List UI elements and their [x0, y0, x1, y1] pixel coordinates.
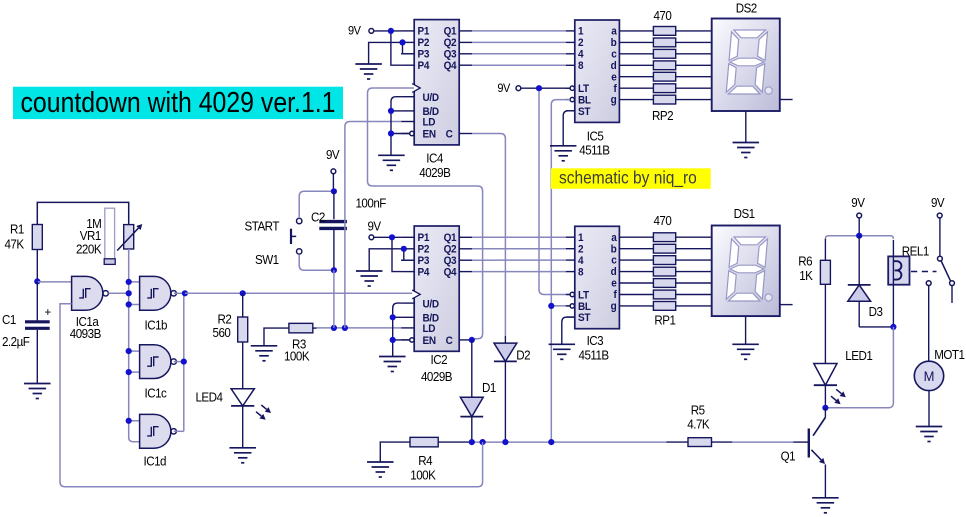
- node bus IC1b.in2: [126, 301, 132, 307]
- svg-text:a: a: [611, 26, 617, 37]
- svg-text:9V: 9V: [497, 83, 510, 95]
- capacitor C1: [2, 281, 51, 383]
- node IC2 EN: [390, 337, 396, 343]
- svg-text:C: C: [446, 336, 454, 347]
- decoder IC3 (4511B): [566, 226, 654, 362]
- svg-text:220K: 220K: [76, 242, 102, 256]
- wire LD bus: [317, 327, 402, 329]
- switch SW1 (START pushbutton): [245, 218, 302, 267]
- svg-text:4093B: 4093B: [70, 327, 101, 341]
- relay coil REL1: [888, 240, 929, 327]
- svg-text:P4: P4: [418, 267, 430, 278]
- wire IC4 P2/P3 to ground: [369, 42, 415, 64]
- diode D3 (flyback): [848, 236, 894, 327]
- svg-text:9V: 9V: [326, 148, 340, 162]
- wire bottom bus (D1/D2/R4/BL to R5): [438, 441, 793, 443]
- svg-text:e: e: [611, 278, 617, 289]
- svg-text:+: +: [45, 305, 52, 319]
- decoder IC5 (4511B): [566, 20, 654, 157]
- node IC4 B/D: [388, 108, 394, 114]
- resistor R1: [5, 222, 43, 281]
- svg-text:d: d: [611, 267, 617, 278]
- svg-text:VR1: VR1: [80, 228, 102, 242]
- wire 9V to IC2 P1/P4: [374, 237, 402, 271]
- svg-text:LED1: LED1: [845, 349, 873, 363]
- relay contact (NO switch): [926, 218, 954, 361]
- wire top rail R1-VR1: [37, 202, 128, 224]
- wire relay node to LED1/Q1 node: [825, 327, 893, 408]
- terminal 9V (IC2): [368, 219, 382, 240]
- wire IC5 ST to ground: [563, 111, 575, 146]
- svg-text:100K: 100K: [284, 349, 310, 363]
- wire DS1 common to ground: [745, 316, 747, 344]
- ground (MOT1): [916, 427, 943, 442]
- svg-text:1: 1: [578, 26, 584, 37]
- terminal 9V (LT line): [497, 83, 520, 95]
- wire BL line IC5-IC3-bus: [551, 100, 570, 443]
- NAND gate IC1a: [70, 276, 109, 341]
- title banner (cyan): [13, 87, 343, 120]
- svg-text:LD: LD: [423, 117, 437, 128]
- node IC2 9V: [389, 234, 395, 240]
- ground (IC4 U/D,B/D,EN): [378, 155, 405, 170]
- node bus IC1b.in1: [126, 279, 132, 285]
- svg-text:2: 2: [578, 38, 584, 49]
- node LED1/Q1 collector: [822, 405, 828, 411]
- NAND gate IC1b: [140, 276, 177, 332]
- node rail 9V: [856, 233, 862, 239]
- node bus/BL: [548, 439, 554, 445]
- ground (Q1): [812, 498, 839, 513]
- svg-text:Q1: Q1: [444, 26, 457, 37]
- svg-text:1K: 1K: [799, 269, 813, 283]
- ground (IC4 P2/P3): [355, 64, 382, 79]
- svg-text:R5: R5: [691, 403, 706, 417]
- ground (R3): [251, 346, 278, 361]
- svg-text:P2: P2: [418, 38, 430, 49]
- wire gate input bus (vertical): [129, 282, 140, 442]
- node IC1c output: [181, 359, 187, 365]
- svg-text:ST: ST: [578, 107, 591, 118]
- svg-text:g: g: [611, 301, 617, 312]
- svg-text:d: d: [611, 61, 617, 72]
- svg-text:DS1: DS1: [734, 207, 756, 221]
- svg-text:REL1: REL1: [902, 244, 930, 258]
- NAND gate IC1c: [140, 345, 177, 401]
- svg-text:4029B: 4029B: [421, 370, 452, 384]
- node bus IC1d.in1: [126, 418, 132, 424]
- counter IC4 (4029B): [401, 20, 472, 181]
- terminal 9V (IC4): [348, 25, 374, 37]
- svg-text:M: M: [924, 368, 935, 384]
- svg-text:Q2: Q2: [444, 244, 457, 255]
- diode D2: [494, 336, 531, 442]
- node C2 bottom: [331, 267, 337, 273]
- wire DS2 common to ground: [745, 111, 747, 143]
- node oscillator/R2: [240, 290, 246, 296]
- wire 9V rail: [825, 236, 893, 239]
- resistor R2: [213, 293, 248, 342]
- svg-text:4.7K: 4.7K: [687, 417, 709, 431]
- wire IC4.C to D2: [472, 134, 505, 337]
- LED LED1: [814, 284, 873, 408]
- wire IC4 LD line: [345, 122, 401, 328]
- svg-text:4: 4: [578, 49, 584, 60]
- ground (IC3 ST): [549, 344, 576, 359]
- svg-text:P1: P1: [418, 233, 430, 244]
- svg-text:START: START: [245, 219, 281, 233]
- node LD/C2: [331, 325, 337, 331]
- wire IC1a output to bus: [108, 292, 128, 294]
- potentiometer VR1: [76, 208, 142, 264]
- node LD/IC4-LD: [342, 325, 348, 331]
- svg-text:DS2: DS2: [736, 1, 758, 15]
- node REL1/D3: [890, 324, 896, 330]
- svg-text:g: g: [611, 95, 617, 106]
- ground (R4): [367, 462, 394, 477]
- svg-text:C1: C1: [2, 313, 17, 327]
- wire IC3 ST to ground: [562, 317, 575, 344]
- svg-text:9V: 9V: [368, 219, 382, 233]
- svg-text:R6: R6: [798, 254, 813, 268]
- node IC4 EN: [388, 130, 394, 136]
- svg-text:Q3: Q3: [444, 256, 457, 267]
- svg-text:ST: ST: [578, 313, 591, 324]
- svg-text:D3: D3: [869, 305, 884, 319]
- ground (DS1): [732, 344, 759, 359]
- wire R1 node to IC1a input: [37, 281, 71, 283]
- ground (IC2 U/D,B/D,EN): [379, 357, 406, 372]
- ground (C1): [24, 384, 51, 399]
- svg-text:47K: 47K: [5, 237, 25, 251]
- svg-text:IC2: IC2: [431, 353, 448, 367]
- node IC2 carry C: [469, 337, 475, 343]
- svg-text:4029B: 4029B: [419, 166, 450, 180]
- wire 9V to LT pins: [521, 88, 570, 294]
- resistor R5: [666, 403, 732, 446]
- svg-text:8: 8: [578, 267, 584, 278]
- svg-text:BL: BL: [578, 302, 592, 313]
- resistor R6: [798, 239, 830, 285]
- node bus IC1c.in1: [126, 348, 132, 354]
- wire SW1 bottom to C2 bottom node: [299, 254, 334, 270]
- wire carry IC2.C to IC4 clock: [368, 88, 483, 339]
- mechanical link (dashed): [911, 271, 937, 273]
- svg-text:IC1c: IC1c: [145, 386, 167, 400]
- svg-text:9V: 9V: [931, 196, 945, 210]
- wire IC2.C down to D1: [471, 340, 473, 397]
- node IC3 BL: [548, 303, 554, 309]
- svg-text:IC1b: IC1b: [145, 318, 168, 332]
- svg-text:c: c: [611, 255, 617, 266]
- node bus/D2: [502, 439, 508, 445]
- wire IC2 P2/P3 to ground: [369, 249, 414, 271]
- svg-text:b: b: [611, 244, 617, 255]
- svg-text:2.2µF: 2.2µF: [2, 335, 30, 349]
- svg-text:IC3: IC3: [587, 334, 604, 348]
- svg-text:U/D: U/D: [423, 299, 440, 310]
- wires IC2 Q1-Q4 to IC3 inputs: [472, 237, 566, 271]
- svg-text:c: c: [611, 49, 617, 60]
- terminal 9V (rail): [851, 196, 865, 236]
- svg-text:R2: R2: [218, 312, 233, 326]
- svg-text:countdown with 4029 ver.1.1: countdown with 4029 ver.1.1: [21, 87, 336, 119]
- display DS1 (7-segment): [712, 207, 793, 316]
- node LT 9V: [536, 85, 542, 91]
- resistor R3: [264, 323, 317, 363]
- svg-text:R1: R1: [10, 222, 25, 236]
- wire oscillator output to IC2 clock: [185, 292, 414, 294]
- node IC2 P2: [401, 246, 407, 252]
- svg-text:C2: C2: [311, 210, 326, 224]
- wire feedback loop to IC1a: [60, 304, 483, 487]
- ground (IC5 ST): [550, 146, 577, 161]
- svg-text:2: 2: [578, 244, 584, 255]
- svg-text:Q4: Q4: [444, 61, 457, 72]
- node bus/D1: [469, 439, 475, 445]
- counter IC2 (4029B): [401, 226, 472, 384]
- svg-text:MOT1: MOT1: [934, 348, 965, 362]
- node bus IC1a.out: [126, 290, 132, 296]
- wire VR1 to gate input bus: [128, 249, 130, 282]
- svg-text:b: b: [611, 38, 617, 49]
- wire IC4 U/D-B/D-EN tie: [391, 97, 410, 156]
- svg-text:470: 470: [654, 8, 673, 22]
- svg-text:Q1: Q1: [781, 449, 796, 463]
- svg-text:IC1d: IC1d: [144, 454, 166, 468]
- terminal 9V (C2): [326, 148, 340, 192]
- svg-text:C: C: [446, 129, 454, 140]
- svg-text:Q4: Q4: [444, 267, 457, 278]
- wire 9V to IC4 P1/P4: [374, 31, 402, 65]
- svg-text:4511B: 4511B: [579, 348, 610, 362]
- node IC4 P2: [399, 39, 405, 45]
- svg-text:e: e: [611, 72, 617, 83]
- svg-text:a: a: [611, 233, 617, 244]
- svg-text:4: 4: [578, 256, 584, 267]
- node bus IC1c.in2: [126, 369, 132, 375]
- wire gate output bus: [174, 293, 185, 431]
- resistor R4: [380, 437, 438, 482]
- motor MOT1: [914, 348, 965, 427]
- svg-text:P3: P3: [418, 49, 430, 60]
- svg-text:Q3: Q3: [444, 49, 457, 60]
- ground (LED4): [229, 448, 256, 463]
- svg-text:D2: D2: [516, 348, 531, 362]
- svg-text:9V: 9V: [348, 25, 361, 37]
- svg-text:LD: LD: [423, 324, 437, 335]
- resistor pack RP2 (470): [652, 8, 712, 123]
- resistor pack RP1 (470): [653, 214, 711, 328]
- wires IC4 Q1-Q4 to IC5 inputs: [472, 31, 566, 65]
- svg-text:Q2: Q2: [444, 38, 457, 49]
- svg-text:P1: P1: [418, 26, 430, 37]
- svg-text:LT: LT: [578, 84, 590, 95]
- svg-text:Q1: Q1: [444, 233, 457, 244]
- svg-text:U/D: U/D: [423, 93, 440, 104]
- svg-text:D1: D1: [482, 381, 497, 395]
- transistor Q1: [781, 408, 826, 498]
- wire C2 bottom to LD bus: [333, 270, 335, 328]
- node IC4 9V: [388, 28, 394, 34]
- svg-text:100nF: 100nF: [356, 196, 387, 210]
- svg-text:P4: P4: [418, 61, 430, 72]
- svg-text:EN: EN: [423, 129, 436, 140]
- svg-text:P3: P3: [418, 256, 430, 267]
- wire SW1 top to C2 top node: [299, 191, 334, 218]
- svg-text:IC5: IC5: [587, 129, 604, 143]
- ground (DS2): [733, 143, 760, 158]
- svg-text:schematic by niq_ro: schematic by niq_ro: [559, 167, 697, 188]
- svg-text:RP2: RP2: [652, 109, 674, 123]
- node bus/loop: [480, 439, 486, 445]
- node C2 top: [331, 188, 337, 194]
- svg-text:SW1: SW1: [255, 252, 279, 266]
- node R1/C1 junction: [34, 278, 40, 284]
- display DS2 (7-segment): [712, 1, 793, 111]
- svg-text:LED4: LED4: [196, 390, 224, 404]
- svg-text:P2: P2: [418, 244, 430, 255]
- LED LED4: [196, 342, 272, 448]
- svg-text:RP1: RP1: [654, 313, 676, 327]
- capacitor C2: [311, 191, 386, 270]
- svg-text:EN: EN: [423, 336, 436, 347]
- credit banner (yellow): [551, 167, 711, 189]
- NAND gate IC1d: [140, 414, 177, 468]
- svg-text:8: 8: [578, 61, 584, 72]
- ground (IC2 P2/P3): [356, 271, 383, 286]
- svg-text:9V: 9V: [851, 196, 865, 210]
- diode D1: [460, 381, 496, 442]
- node IC2 B/D: [390, 314, 396, 320]
- svg-text:R4: R4: [418, 454, 433, 468]
- svg-text:IC4: IC4: [426, 151, 443, 165]
- svg-text:4511B: 4511B: [579, 143, 610, 157]
- wire IC2 U/D-B/D-EN tie: [393, 303, 410, 356]
- svg-text:100K: 100K: [410, 468, 436, 482]
- svg-text:LT: LT: [578, 290, 590, 301]
- svg-text:560: 560: [213, 326, 232, 340]
- svg-text:1: 1: [578, 233, 584, 244]
- svg-text:BL: BL: [578, 95, 592, 106]
- node IC1b output: [182, 290, 188, 296]
- terminal 9V (contact): [931, 196, 945, 218]
- svg-text:470: 470: [654, 214, 673, 228]
